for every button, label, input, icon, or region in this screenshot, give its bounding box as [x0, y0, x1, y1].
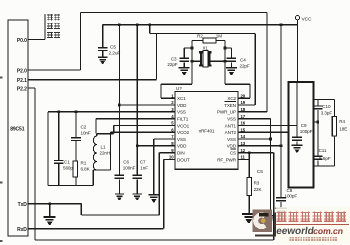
overline TXEN — [225, 100, 237, 102]
wire VCO2 pin6 row — [110, 132, 112, 170]
wire TXEN net — [149, 25, 151, 34]
wire P2.1 to TXEN — [28, 79, 156, 81]
capacitor C5 — [102, 25, 104, 47]
junction crystal right — [224, 60, 227, 63]
svg-text:DIN: DIN — [177, 151, 185, 156]
svg-text:C10: C10 — [322, 104, 331, 109]
svg-text:C4: C4 — [240, 58, 246, 63]
wire XC1 riser — [191, 41, 193, 85]
svg-text:TXEN: TXEN — [224, 103, 236, 108]
junction pin8 — [136, 145, 139, 148]
svg-text:89C51: 89C51 — [10, 127, 25, 133]
svg-text:XC1: XC1 — [177, 96, 186, 101]
label signal detect circuit (Chinese) — [47, 14, 53, 20]
svg-text:C1: C1 — [64, 159, 70, 164]
svg-text:VDD: VDD — [177, 144, 187, 149]
resistor R2 — [192, 40, 203, 42]
wire rail riser to L1 — [92, 170, 94, 186]
svg-text:eeworld: eeworld — [275, 226, 314, 237]
wire antenna bottom tap — [314, 165, 335, 167]
wire VSS pin17 drop — [238, 118, 271, 120]
svg-text:L1: L1 — [101, 145, 106, 150]
svg-text:10nF: 10nF — [81, 131, 91, 136]
svg-text:R4: R4 — [339, 119, 345, 124]
svg-text:C5: C5 — [110, 44, 116, 50]
wire filter bottom rail — [48, 185, 93, 187]
resistor R1 — [73, 161, 77, 177]
svg-text:C6: C6 — [123, 160, 129, 165]
svg-text:R1: R1 — [81, 161, 87, 166]
svg-text:22nH: 22nH — [100, 151, 111, 156]
wire antenna mid tap — [314, 121, 318, 123]
ground C5 — [98, 57, 108, 58]
svg-text:VDD: VDD — [227, 144, 237, 149]
svg-text:XC2: XC2 — [227, 96, 236, 101]
svg-text:VSS: VSS — [227, 137, 236, 142]
resistor R3 — [248, 153, 250, 178]
svg-text:VCO1: VCO1 — [177, 123, 190, 128]
svg-text:VDD: VDD — [177, 103, 187, 108]
junction TxD ground — [48, 202, 51, 205]
svg-text:ANT1: ANT1 — [225, 123, 237, 128]
wire pin3 corner drop — [47, 112, 49, 186]
wire VDD pin13 — [280, 25, 282, 197]
VCC rail — [103, 24, 298, 26]
svg-text:5.6pF: 5.6pF — [319, 156, 331, 161]
ground TxD — [49, 204, 51, 216]
junction rail-TXEN — [149, 23, 152, 26]
wire VSS pin3 row — [48, 111, 175, 113]
wire ANT1 pin16 row — [238, 124, 297, 126]
overline CS — [231, 148, 237, 150]
junction pin14 — [269, 138, 272, 141]
wire RF_PWR pin11 row — [238, 158, 249, 160]
svg-text:560p: 560p — [63, 166, 73, 171]
junction rail-C8 — [280, 23, 283, 26]
svg-text:C9: C9 — [301, 123, 307, 128]
capacitor C6 — [115, 175, 125, 176]
wire VDD pin8 drop — [136, 25, 138, 175]
svg-text:CS: CS — [257, 169, 263, 174]
scan artifact ticks — [0, 77, 3, 79]
svg-text:RxD: RxD — [17, 227, 27, 233]
capacitor C1 — [58, 112, 60, 160]
svg-text:PWR_UP: PWR_UP — [217, 110, 236, 115]
wire P2.0 to PWR_UP (net A upper rail) — [28, 69, 81, 71]
wire FILT1 pin4 row — [96, 118, 175, 120]
crystal X1 — [192, 60, 200, 62]
junction C1 top — [57, 111, 60, 114]
svg-text:18: 18 — [241, 107, 246, 112]
wire antenna tap upper — [314, 98, 335, 100]
svg-text:6.8K: 6.8K — [81, 167, 91, 172]
ground C4 — [226, 67, 237, 69]
PCB loop antenna box — [289, 82, 314, 188]
svg-text:C11: C11 — [319, 148, 327, 153]
svg-text:C7: C7 — [140, 160, 146, 165]
svg-text:C2: C2 — [81, 125, 87, 130]
junction pin2 — [118, 104, 121, 107]
svg-text:22K: 22K — [254, 187, 263, 192]
capacitor C7 — [132, 175, 142, 176]
svg-text:nRF401: nRF401 — [199, 128, 215, 133]
svg-text:X1: X1 — [203, 46, 209, 51]
svg-text:R2: R2 — [197, 33, 203, 38]
inductor L1 — [97, 133, 114, 135]
wire VDD pin2 row — [119, 104, 175, 106]
svg-text:VCC: VCC — [302, 16, 312, 22]
svg-text:P0.0: P0.0 — [17, 38, 27, 44]
svg-text:18E: 18E — [339, 127, 347, 132]
svg-text:CS: CS — [230, 151, 236, 156]
VCC terminal — [295, 16, 299, 20]
junction rail-C6 — [118, 23, 121, 26]
IC U? nRF401 box — [175, 92, 238, 170]
wire TxD to DIN — [28, 203, 81, 205]
wire VDD pin8 row — [137, 145, 175, 147]
svg-text:2.2uF: 2.2uF — [109, 50, 121, 56]
junction rail-C7 — [136, 23, 139, 26]
svg-text:1nF: 1nF — [140, 166, 148, 171]
svg-text:19: 19 — [241, 100, 246, 105]
svg-text:FILT1: FILT1 — [177, 117, 189, 122]
svg-text:TxD: TxD — [18, 202, 28, 208]
wire VCC down to antenna box — [297, 25, 299, 82]
wire VSS pin14 row — [238, 138, 271, 140]
svg-text:U?: U? — [176, 86, 182, 91]
svg-text:ANT2: ANT2 — [225, 130, 237, 135]
ground C9 — [292, 145, 303, 147]
svg-text:P2.1: P2.1 — [17, 78, 27, 84]
ground VSS right — [266, 215, 276, 216]
junction crystal left — [191, 60, 194, 63]
wire ANT2 pin15 row — [238, 131, 289, 133]
junction pin13 — [280, 145, 283, 148]
svg-text:DOUT: DOUT — [177, 157, 190, 162]
svg-text:VSS: VSS — [177, 110, 186, 115]
capacitor C2 — [75, 112, 77, 137]
watermark eeworld logo and text — [276, 207, 350, 244]
svg-text:RF_PWR: RF_PWR — [217, 157, 237, 162]
svg-text:100nF: 100nF — [123, 166, 136, 171]
capacitor C8 — [276, 197, 286, 198]
wire VCO1 pin5 row — [113, 125, 115, 133]
svg-text:22pF: 22pF — [167, 62, 177, 67]
svg-text:3.3pF: 3.3pF — [321, 110, 333, 115]
svg-text:100pF: 100pF — [300, 129, 313, 134]
svg-text:VCO2: VCO2 — [177, 130, 190, 135]
capacitor C11 — [313, 156, 323, 157]
svg-text:22pF: 22pF — [240, 64, 250, 69]
ground C7 — [133, 193, 142, 194]
ground VSS pin7 — [148, 194, 159, 196]
wire VDD pin2 drop — [118, 25, 120, 175]
ground C3 — [179, 67, 190, 69]
svg-text:R3: R3 — [254, 181, 260, 186]
svg-text:C3: C3 — [171, 56, 177, 61]
ground R3 — [242, 213, 255, 215]
wire P0.0 to signal-detect stub — [28, 39, 45, 41]
capacitor C3 — [184, 47, 192, 49]
wire RxD to DOUT — [28, 228, 164, 230]
capacitor C4 — [225, 47, 231, 49]
svg-text:P2.0: P2.0 — [17, 68, 27, 74]
svg-text:.com.cn: .com.cn — [310, 226, 344, 236]
wire antenna C9 feed — [296, 82, 298, 137]
wire XC2 riser — [224, 41, 226, 85]
wire P2.2 to CS — [28, 87, 35, 89]
svg-text:VSS: VSS — [227, 117, 236, 122]
wire VSS pin7 row — [154, 138, 175, 140]
svg-text:P2.2: P2.2 — [17, 86, 27, 92]
ground C6 — [115, 193, 124, 194]
resistor R4 — [334, 99, 336, 116]
junction R3 top — [248, 151, 251, 154]
svg-text:100pF: 100pF — [285, 194, 298, 199]
capacitor C10 — [317, 99, 319, 105]
capacitor C9 — [292, 137, 302, 138]
svg-text:20: 20 — [241, 93, 246, 98]
svg-text:VSS: VSS — [177, 137, 186, 142]
junction C2 top — [75, 111, 78, 114]
ground C8 — [275, 208, 287, 210]
svg-text:1M: 1M — [216, 34, 222, 39]
IC 89C51 microcontroller box — [8, 20, 28, 236]
